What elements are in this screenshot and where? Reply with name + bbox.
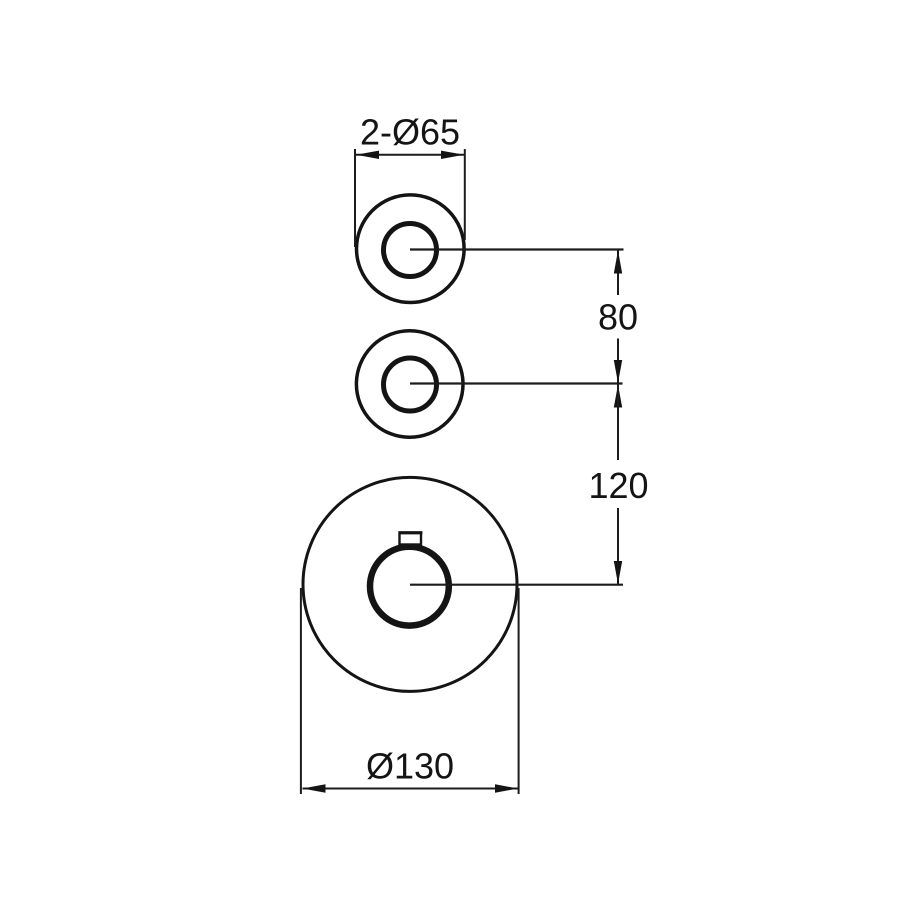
dim O130 right arrowhead [495, 784, 518, 792]
middle knob inner circle [384, 358, 437, 411]
dim 80 up arrowhead [614, 251, 622, 274]
top knob inner circle [384, 224, 437, 277]
dim 2-O65 left extension line [354, 149, 356, 247]
dim 120 up arrowhead [614, 385, 622, 408]
bottom knob index tab top edge [399, 531, 423, 534]
bottom knob center line [410, 584, 623, 586]
dim O130 dimension line [303, 788, 519, 790]
dim O130 left arrowhead [303, 784, 326, 792]
dim 2-O65 right arrowhead [441, 151, 464, 159]
dim 80 vertical line upper segment [617, 250, 619, 295]
bottom plate outer circle [303, 477, 517, 691]
dim 120 vertical line lower segment [617, 508, 619, 584]
dim 2-O65 left arrowhead [356, 151, 379, 159]
svg-text:80: 80 [598, 297, 638, 338]
dim O130 right extension line [518, 588, 520, 794]
middle knob outer circle [356, 331, 463, 438]
dim 120 down arrowhead [614, 561, 622, 584]
middle knob center line [410, 382, 623, 384]
svg-text:Ø130: Ø130 [366, 746, 454, 787]
svg-text:2-Ø65: 2-Ø65 [360, 112, 460, 153]
dim O130 left extension line [300, 588, 302, 794]
bottom knob inner circle [370, 547, 449, 626]
dim 80 vertical line lower segment [617, 339, 619, 384]
dim 80 down arrowhead [614, 360, 622, 383]
top knob center line [410, 248, 624, 250]
top knob outer circle [357, 195, 465, 303]
bottom knob index tab [400, 533, 422, 545]
dim 120 vertical line upper segment [617, 385, 619, 461]
svg-text:120: 120 [588, 465, 648, 506]
dim 2-O65 dimension line [356, 154, 464, 156]
dim 2-O65 right extension line [464, 149, 466, 240]
